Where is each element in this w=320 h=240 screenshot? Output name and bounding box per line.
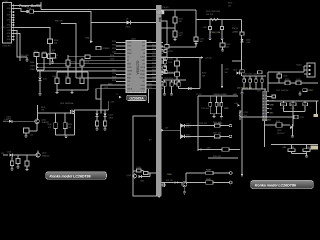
svg-text:D104: D104 [109,115,113,117]
svg-text:DRV2: DRV2 [127,49,132,51]
capacitor C236 right of bus [161,71,173,75]
svg-text:R212: R212 [152,48,156,50]
resistor R232 [303,103,308,107]
resistor R226 [240,32,244,35]
svg-text:R229: R229 [285,79,289,81]
wire CT branch down [68,55,114,60]
svg-text:SS14: SS14 [126,26,130,28]
wire zener to gnd [39,81,41,95]
capacitor C233 [161,60,172,64]
net labels C251 row [276,90,289,92]
svg-text:R220: R220 [202,73,206,75]
node PW junction [49,49,55,52]
resistor R108 [50,52,56,58]
net ENA arrow [86,23,94,44]
wire D105 to Q102 [12,120,35,122]
resistor R206 on CT row [85,55,90,58]
wire source rail [56,134,75,136]
pin 6 of CON1 [7,20,14,22]
resistor R245 row [208,156,238,158]
svg-text:C204: C204 [52,76,56,78]
svg-text:CN201: CN201 [296,65,302,67]
diode D209 [179,86,192,90]
svg-text:VREF: VREF [127,74,132,76]
svg-text:C223: C223 [224,108,228,110]
net arrows far left [37,63,39,72]
svg-text:R110: R110 [34,51,38,53]
svg-text:PWM_DIM: PWM_DIM [211,32,221,34]
transistor Q203 [277,124,293,135]
svg-text:Q102: Q102 [42,119,46,121]
capacitor C232 [220,43,230,49]
svg-text:RT: RT [127,60,129,62]
resistor box on pin row 2 [96,46,110,50]
net +12V_BL [161,56,212,59]
capacitor C208 [277,72,287,81]
wire vertical feed to caps bank [241,20,243,77]
capacitor C204 [52,76,59,83]
svg-text:104: 104 [225,72,228,74]
svg-text:C233: C233 [168,62,172,64]
diode D104 [104,114,113,120]
svg-text:104: 104 [179,35,182,37]
diode D211 [181,134,190,139]
bus bar vertical [156,5,162,196]
ground [163,86,166,96]
svg-text:R216: R216 [152,73,156,75]
capacitor C221 [215,103,218,107]
diode D201 right [233,70,242,75]
diode D210 [181,124,190,129]
resistor R234 [265,121,282,127]
svg-text:D106: D106 [7,152,11,154]
capacitor C252 [300,89,314,94]
svg-text:C246: C246 [290,108,294,110]
capacitor C237 drop [221,64,229,89]
zener Z101 [39,78,48,81]
wire DRV4 down [96,89,121,99]
lower right-of-bus RC bank [163,78,186,82]
value labels [201,108,228,110]
svg-text:DIM: DIM [8,30,12,32]
resistor R231 [290,103,296,110]
wire 12V rail top [14,2,156,10]
svg-text:C104: C104 [85,62,89,64]
svg-text:OZ9983A: OZ9983A [136,61,140,76]
svg-text:VSEN: VSEN [127,67,132,69]
svg-text:R234: R234 [276,121,280,123]
U201 left net labels [104,41,116,89]
capacitor C241 [249,79,252,82]
terminal HV1 [213,172,232,175]
svg-text:Q101 2SK3114A: Q101 2SK3114A [60,102,74,105]
net PW bottom [162,180,183,184]
svg-text:C211: C211 [152,52,156,54]
svg-text:SS14: SS14 [109,117,113,119]
svg-text:C245: C245 [281,108,285,110]
ground [299,94,302,96]
svg-text:SEC: SEC [270,112,275,114]
svg-text:OZ9983A: OZ9983A [129,96,144,100]
net arrow down [241,155,243,177]
resistor R230 [281,103,287,110]
svg-text:D210: D210 [186,124,190,126]
ground [291,136,294,138]
capacitor C242 [255,79,258,82]
svg-text:T201: T201 [257,91,261,93]
svg-text:GND: GND [7,33,12,35]
svg-text:10K 104: 10K 104 [206,14,213,16]
net +16V top [105,101,115,110]
capacitor C250 top [267,95,276,98]
resistor small above bank [258,71,263,74]
resistor R244 [222,148,229,151]
svg-text:SS14: SS14 [186,137,190,139]
label plate Konka model right [251,180,313,188]
svg-text:+16V0: +16V0 [232,32,239,34]
svg-text:PW_B: PW_B [232,28,238,30]
pin 10 of CON1 [8,30,14,32]
diode D106 [7,152,13,157]
svg-text:C220 104: C220 104 [201,108,209,110]
wire VREF long [37,70,121,72]
svg-text:ADJ: ADJ [7,35,10,38]
svg-text:R214: R214 [152,62,156,64]
capacitor C104 [80,60,89,66]
svg-text:PW_ON: PW_ON [55,21,63,23]
svg-text:473: 473 [48,127,51,129]
bus wires into right of bus bar mid [161,21,196,57]
wire Q101 drain [75,109,98,111]
svg-text:R215: R215 [152,69,156,71]
ground [195,42,198,46]
resistor R237 [288,145,295,152]
svg-text:R225: R225 [228,3,232,5]
wire R221 to C216 [161,23,175,31]
diode D206 [241,39,252,44]
svg-text:C214: C214 [152,77,156,79]
svg-text:SW: SW [142,46,145,48]
ground [220,114,223,119]
svg-text:D110: D110 [140,181,144,183]
resistor R221 [173,17,183,23]
svg-text:DRV3: DRV3 [141,85,146,87]
wire PW_ON from connector [14,28,50,66]
svg-text:GND: GND [7,8,12,10]
wire aux rail bottom right [271,144,318,146]
net +12V label [3,119,9,121]
junction box right of bus [165,45,169,49]
wire bank left to gnd [241,89,243,93]
resistor R249 [206,179,213,184]
ground [56,90,59,95]
wire C210 row [242,116,294,118]
U201 left pin labels [127,42,133,90]
svg-text:Z101: Z101 [43,79,47,81]
net label LT201 [197,93,238,96]
svg-text:C215: C215 [169,59,173,61]
svg-text:PW_On/Off: PW_On/Off [2,27,12,29]
pin 7 of CON1 [9,22,14,24]
wire right pin down [148,89,150,103]
wire branch x196 [195,10,197,37]
resistor R112 [104,117,107,127]
svg-text:C213: C213 [152,66,156,68]
svg-text:SST: SST [142,60,145,62]
wire branch x175 [174,10,176,17]
wire Q101 source down [74,114,76,135]
wires under row boxes [284,101,306,127]
svg-text:SPMB01: SPMB01 [103,48,110,50]
svg-text:12: 12 [9,12,11,14]
resistor R246 [213,122,222,128]
wire gnd chain from pins [14,31,27,58]
diode D8 SS14 [126,19,131,29]
svg-text:+12V_BL: +12V_BL [205,58,212,60]
ground [65,135,68,139]
connector CN204 bright [311,145,318,149]
svg-text:Konka model LC26DT86: Konka model LC26DT86 [50,174,92,178]
svg-text:C212: C212 [152,59,156,61]
svg-text:R128: R128 [137,167,141,169]
capacitor C219 vertical [242,95,248,155]
U201 left pins [121,43,126,89]
shield box outline [133,116,157,196]
capacitor C108 [47,113,57,135]
capacitor C216 [173,31,183,37]
resistor R114 [25,155,29,166]
wire secondary rail2 [268,81,318,83]
wire out lower [187,182,206,184]
wire VSEN long [37,66,121,68]
capacitor C240 [243,79,246,82]
svg-text:ISEN2: ISEN2 [140,74,145,76]
wire gate rail [38,112,71,114]
svg-text:R101: R101 [27,8,31,10]
svg-text:GNDA: GNDA [127,87,133,90]
svg-text:2SC5707: 2SC5707 [277,133,285,135]
pin 12 of CON1 [7,35,14,38]
svg-text:C219: C219 [244,112,248,114]
svg-text:CN1_GND: CN1_GND [20,55,29,57]
capacitor bank top rail [242,76,266,79]
svg-text:104 104 104 104: 104 104 104 104 [237,87,253,89]
transistor Q101 mosfet [60,102,75,114]
svg-text:R217: R217 [152,80,156,82]
svg-text:ISEN: ISEN [30,62,35,64]
lower-left RC bank wires [57,66,88,90]
capacitor bank lower rail [242,82,266,91]
value labels aux [283,147,311,149]
svg-text:PW_B+: PW_B+ [163,7,169,9]
wire right drop [316,101,318,114]
svg-text:C208: C208 [283,76,287,78]
svg-text:T1: T1 [116,94,118,96]
capacitor C222 [220,103,223,107]
svg-text:DRV4: DRV4 [141,88,146,90]
resistor R224 [170,82,173,86]
resistor R103 [24,124,38,137]
diode D105 [7,117,13,123]
label plate Konka model left [46,172,107,180]
net labels cap bank [243,74,262,76]
wire charge pump rail [196,19,242,21]
svg-text:450: 450 [226,47,229,49]
diode D110 [139,173,151,183]
svg-text:COMP: COMP [140,56,146,58]
svg-text:D202: D202 [148,84,152,86]
terminal HV2 [213,181,232,184]
svg-text:R108: R108 [50,52,54,54]
svg-text:D211: D211 [186,134,190,136]
resistor R247 [213,133,222,138]
op-amp controller U201 body [126,39,146,93]
ground [170,86,173,96]
inner transistor circuit Q105 [127,174,151,178]
ground [17,164,20,170]
capacitor C103 [42,51,47,57]
svg-text:PW_ON: PW_ON [166,180,173,182]
wire out1 [185,125,215,127]
svg-text:R213: R213 [152,55,156,57]
resistor R111 [96,117,99,127]
resistor R107 [48,54,59,60]
capacitor C113 [16,155,20,164]
U201 right pins crossing bus [146,43,163,89]
capacitor C206 [79,76,84,83]
pin 5 of CON1 [9,17,14,19]
resistor R219 chain [175,58,180,85]
svg-text:R247 10R: R247 10R [213,133,222,135]
connector CN201 [296,63,315,77]
capacitor C210 [294,115,304,119]
ground [26,57,29,62]
capacitor C220a [177,82,180,86]
ground [39,94,42,96]
svg-text:Q203: Q203 [277,130,281,132]
svg-text:VSEN: VSEN [30,66,36,68]
ground [241,93,244,95]
wire D106 to Q103 [13,154,36,156]
svg-text:Q103: Q103 [42,153,46,155]
T201 right pin labels [270,96,275,114]
capacitor on bus right [162,183,167,187]
wire C232 [222,40,224,50]
capacitor C231 drop [221,20,224,39]
svg-text:R222 C230 D204: R222 C230 D204 [206,11,220,13]
svg-text:R246 10R: R246 10R [213,122,222,124]
wire top rail right of bus [161,9,196,11]
svg-text:Q105: Q105 [127,175,131,177]
wire second rail [14,9,127,23]
capacitor C205 [65,76,70,83]
resistor R106 [48,39,59,45]
capacitor C254 [303,145,310,152]
svg-text:104: 104 [228,6,231,8]
svg-text:SS14: SS14 [186,126,190,128]
diode D204 drop [209,20,212,39]
svg-text:15 16 17 18 19 20: 15 16 17 18 19 20 [127,92,154,94]
net +16V row [198,148,240,151]
ground [221,50,224,52]
pin 8 of CON1 [7,25,14,27]
svg-text:R211: R211 [152,45,156,47]
wire T201 bottom lead [264,121,266,148]
svg-text:D51: D51 [158,11,163,14]
pin 3 of CON1 [9,12,14,14]
net 12V bottom left [1,153,8,155]
net +16V arrow mid [234,103,240,106]
transistor Q103 [36,153,50,158]
resistor R205 [66,60,75,66]
svg-text:12: 12 [9,5,11,7]
pin 13 of CON1 [7,39,14,41]
ground [51,62,54,64]
wire DRV3 down to gate diodes [101,85,121,110]
svg-text:C237: C237 [225,69,229,71]
svg-text:D201: D201 [233,70,237,72]
wire zener branch [37,57,45,78]
net labels cap bank bottom [237,87,253,89]
wire Q103 collector up [37,151,39,153]
svg-text:R205: R205 [71,62,75,64]
svg-text:LCT: LCT [127,85,130,87]
pin 2 of CON1 [7,8,14,10]
svg-text:102: 102 [30,135,33,137]
ground [26,166,29,172]
net labels charge pump [206,11,220,16]
resistor R220 drop [191,58,206,89]
svg-text:C230: C230 [203,27,207,29]
ground [213,114,216,119]
terminal out2 [220,135,232,138]
svg-text:TIMER: TIMER [127,71,133,73]
svg-text:GNDP: GNDP [127,53,133,55]
resistor R227 [232,61,244,73]
value labels row2 [199,123,222,125]
resistor R115 [63,113,72,135]
net 12V mid [162,128,169,132]
pin 9 of CON1 PW_ON [2,27,14,29]
resistor R110 [34,51,39,57]
wire gate diode split [97,110,105,114]
ground [96,126,99,131]
ground [209,38,212,40]
svg-text:LPS-4202: LPS-4202 [262,120,272,122]
wire to gnd [14,34,20,62]
svg-text:C224 104: C224 104 [199,123,207,125]
terminal out1 [220,124,232,127]
lower join wire [210,106,221,114]
svg-text:C209: C209 [296,79,300,81]
wire 12V to diode pair [164,124,181,140]
U201 part number label plate [127,95,147,100]
pin 4 of CON1 [7,15,14,17]
svg-text:R245 10K: R245 10K [213,156,222,158]
U201 right pin labels [139,42,145,90]
resistor R218 chain [162,58,178,74]
connector CON1 [3,1,12,47]
CON1 pin arrows [13,4,15,40]
svg-text:104: 104 [200,41,203,43]
wire R108 to gnd [52,58,54,62]
resistor R109 [38,105,46,119]
svg-text:R201: R201 [112,41,116,43]
resistor R128 [137,167,142,172]
svg-text:2SA1037: 2SA1037 [42,154,49,157]
svg-text:R223: R223 [169,51,173,53]
resistor R129 [141,171,157,175]
